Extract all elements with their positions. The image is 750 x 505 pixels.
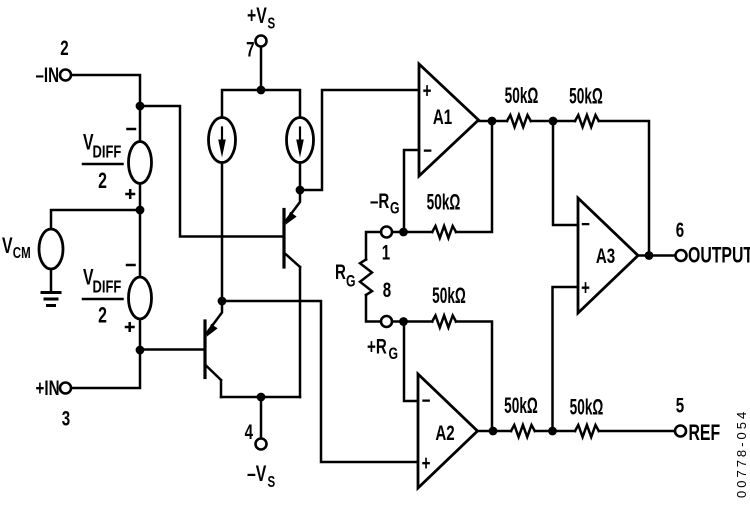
svg-text:−: − — [422, 388, 431, 412]
node E junction — [549, 117, 558, 126]
Q1 emitter node junction — [296, 186, 305, 195]
wire node B to Vdiff2 — [139, 210, 142, 278]
pin 1 (-RG) — [381, 227, 392, 238]
current source I2 — [287, 118, 314, 163]
pin 4 (-VS) — [256, 439, 267, 450]
svg-text:+IN: +IN — [36, 375, 60, 399]
wire R4 down to A2 output node — [456, 322, 492, 432]
resistor 50k A2-out (R5) — [511, 425, 535, 437]
svg-text:+: + — [423, 78, 432, 102]
wire RG resistor to +RG pin — [366, 295, 381, 322]
svg-text:+: + — [422, 450, 431, 474]
-RG node junction — [399, 228, 408, 237]
wire A3 output to OUTPUT pin — [638, 254, 675, 257]
wire I1 to Q2 emitter node — [221, 163, 224, 302]
transistor Q1 (PNP upper) — [284, 190, 300, 267]
label VDIFF/2 lower — [83, 266, 123, 328]
label +VS — [247, 5, 275, 32]
svg-text:A2: A2 — [435, 420, 454, 444]
resistor 50k top-feedback (R2) — [575, 115, 599, 127]
svg-text:A3: A3 — [596, 243, 615, 267]
wire +RG pin to R4 — [392, 320, 432, 323]
svg-text:–IN: –IN — [35, 62, 59, 86]
svg-text:DIFF: DIFF — [93, 143, 122, 163]
svg-text:2: 2 — [98, 304, 107, 328]
source VDIFF/2 lower — [129, 277, 152, 319]
resistor 50k REF (R6) — [575, 425, 599, 437]
op-amp A1 — [419, 64, 479, 176]
node G junction — [548, 427, 557, 436]
svg-text:G: G — [389, 345, 399, 363]
wire Q2 collector to -VS rail — [220, 381, 223, 398]
wire Q2 emitter node to A2 plus input — [222, 301, 417, 462]
svg-text:7: 7 — [246, 37, 254, 61]
node A junction — [136, 102, 145, 111]
svg-text:50kΩ: 50kΩ — [570, 394, 604, 419]
wire -VS node to pin 4 — [260, 397, 263, 438]
svg-text:–V: –V — [247, 463, 267, 487]
wire VCM to ground — [50, 269, 53, 291]
svg-text:R: R — [335, 259, 346, 283]
svg-text:A1: A1 — [433, 104, 452, 128]
source VCM — [39, 229, 63, 269]
svg-text:50kΩ: 50kΩ — [569, 83, 603, 108]
wire supply rail to current sources — [222, 90, 300, 118]
wire node G to A3 plus input — [553, 287, 579, 431]
svg-text:G: G — [390, 200, 400, 218]
svg-text:G: G — [346, 273, 356, 291]
pin 2 (-IN) — [60, 70, 71, 81]
resistor 50k A1-feedback (R3) — [432, 226, 456, 238]
wire A1 minus input to -RG node — [404, 150, 419, 232]
Q2 emitter node junction — [218, 297, 227, 306]
label VDIFF/2 upper — [83, 131, 123, 194]
wire node E to A3 minus input — [553, 121, 578, 225]
-VS rail wire — [221, 396, 300, 399]
svg-text:4: 4 — [245, 419, 254, 443]
svg-text:3: 3 — [62, 406, 70, 430]
op-amp A2 — [418, 374, 478, 488]
+RG node junction — [399, 317, 408, 326]
wire Vdiff1 to node B — [139, 184, 142, 211]
op-amp A3 — [578, 198, 638, 313]
minus sign of VDIFF2 — [127, 264, 135, 267]
wire A2 minus input to +RG node — [404, 322, 418, 402]
source VDIFF/2 upper — [129, 142, 152, 184]
pin 7 (+VS) — [256, 36, 267, 47]
wire +VS pin to supply node — [260, 47, 263, 90]
svg-text:DIFF: DIFF — [93, 278, 122, 298]
wire node B to VCM — [51, 210, 140, 229]
wire node D down to -RG feedback — [456, 121, 492, 232]
current source I1 — [209, 118, 236, 163]
output node junction — [645, 251, 654, 260]
label VCM — [2, 235, 31, 262]
plus sign of VDIFF2 — [126, 323, 134, 331]
transistor Q2 (PNP lower) — [205, 301, 222, 380]
pin 5 (REF) — [675, 426, 686, 437]
pin 6 (OUTPUT) — [676, 250, 687, 261]
-VS node junction — [257, 393, 266, 402]
svg-text:2: 2 — [98, 170, 107, 194]
resistor 50k A2-feedback (R4) — [432, 316, 456, 328]
pin 3 (+IN) — [60, 383, 71, 394]
label -RG — [370, 188, 400, 218]
svg-text:S: S — [268, 472, 276, 490]
wire R1 to node E — [531, 120, 575, 123]
svg-text:5: 5 — [676, 393, 684, 417]
label -VS — [247, 463, 275, 491]
pin 8 (+RG) — [381, 316, 392, 327]
node C junction — [136, 346, 145, 355]
wire Q1 collector to -VS rail — [299, 267, 302, 397]
label RG — [335, 259, 356, 291]
supply node junction — [257, 86, 266, 95]
node B junction — [136, 206, 145, 215]
svg-text:50kΩ: 50kΩ — [505, 83, 539, 108]
resistor 50k A1-out (R1) — [507, 115, 531, 127]
svg-text:−: − — [581, 211, 590, 235]
svg-text:50kΩ: 50kΩ — [504, 393, 538, 418]
svg-text:+V: +V — [247, 5, 267, 29]
wire Vdiff2 to node C — [139, 319, 142, 350]
wire Q1 emitter node to A1 plus input — [300, 90, 418, 190]
plus sign of VDIFF1 — [127, 190, 135, 198]
wire -IN pin to node A — [71, 75, 140, 106]
ground — [42, 293, 60, 306]
wire I2 to Q1 emitter node — [299, 163, 302, 191]
svg-text:50kΩ: 50kΩ — [432, 283, 466, 308]
svg-text:6: 6 — [676, 217, 684, 241]
wire node A to Q1 base — [140, 106, 283, 237]
svg-text:CM: CM — [13, 243, 31, 261]
svg-text:8: 8 — [383, 277, 391, 301]
wire node C to Q2 base — [140, 348, 204, 351]
svg-text:00778-054: 00778-054 — [734, 409, 749, 498]
wire node C to +IN pin — [71, 350, 140, 388]
wire R3 to -RG node — [392, 231, 432, 234]
svg-text:1: 1 — [382, 240, 390, 264]
svg-text:−: − — [423, 138, 432, 162]
svg-text:S: S — [268, 14, 276, 32]
node F junction (A2 out) — [489, 427, 498, 436]
svg-text:50kΩ: 50kΩ — [427, 189, 461, 214]
wire R5 to node G — [535, 430, 575, 433]
svg-text:+: + — [581, 275, 590, 299]
minus sign of VDIFF1 — [128, 128, 136, 131]
wire A2 output to node F — [478, 430, 512, 433]
svg-text:2: 2 — [60, 35, 68, 59]
wire R6 to REF pin — [599, 430, 675, 433]
wire R2 to output node — [599, 121, 649, 256]
svg-text:REF: REF — [689, 422, 721, 446]
svg-text:V: V — [2, 235, 13, 259]
label +RG — [367, 334, 398, 364]
wire A1 output to node D — [479, 120, 508, 123]
svg-text:OUTPUT: OUTPUT — [688, 244, 750, 268]
resistor RG — [360, 260, 372, 296]
wire -RG pin to RG resistor — [366, 232, 381, 260]
node D junction (A1 out) — [488, 117, 497, 126]
svg-text:–R: –R — [370, 188, 389, 212]
wire node A to Vdiff1 — [139, 106, 142, 142]
svg-text:+R: +R — [367, 334, 387, 358]
